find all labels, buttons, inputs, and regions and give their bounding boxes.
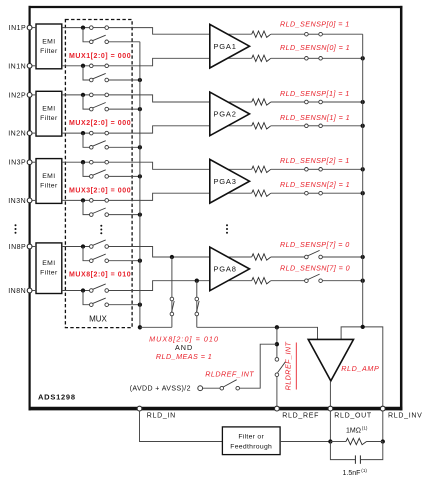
pin RLD_OUT [328,406,372,419]
svg-text:IN3P: IN3P [9,160,27,167]
wire RLD_SENSN[0] to feedback bus [322,57,362,59]
switch RLD_MEAS N [195,297,199,316]
wire EMI to mux node ch2N [62,132,90,134]
svg-text:1.5nF: 1.5nF [343,470,361,477]
resistor R ext 1M [330,438,382,444]
label RLD_SENSP[7] [280,240,350,249]
wire ch3N second row elbow [83,200,90,214]
wire RLD bus to RLD_MEAS switch [140,326,172,328]
wire ch8P second row to bus [109,260,140,262]
switch RLD_MEAS P [170,297,174,316]
op-amp PGA1 [210,24,250,68]
ellipsis dots mux column [100,225,102,234]
junction dot PGA8 N input [195,279,199,283]
wire RLD_SENSP[1] to feedback bus [322,101,362,103]
wire IN3N to EMI filter [32,199,36,201]
wire ch2N second row elbow [83,133,90,147]
junction dot feedback bus N1 [361,124,365,128]
mux switch ch8N to RLD bus [90,298,109,306]
mux switch ch2N main [90,131,109,135]
wire EMI to mux node ch1N [62,65,90,67]
wire ch8P second row elbow [83,247,90,261]
mux switch ch1P main [90,26,109,30]
svg-text:IN8P: IN8P [9,244,27,251]
wire IN1P to EMI filter [32,27,36,29]
filter or feedthrough box [222,427,280,455]
wire EMI to mux node ch2P [62,94,90,96]
wire ch1N second row to bus [109,79,140,81]
resistor RLD_SENSN[7] [252,278,271,284]
svg-text:Filter or: Filter or [238,434,264,441]
wire RLD_MEAS switch N vertical [196,281,198,328]
wire IN2N to EMI filter [32,132,36,134]
svg-text:(1): (1) [361,468,367,473]
wire amp inverting input [341,327,383,406]
wire resistor to switch ch8N [271,280,305,282]
wire resistor to switch ch2P [271,101,305,103]
svg-text:PGA8: PGA8 [214,265,237,274]
switch RLD_SENSP[7] [305,250,323,258]
EMI filter channel 2 [36,91,62,136]
pin IN2P [9,92,32,99]
pin RLD_INV [380,406,422,419]
junction dot ch3P [81,160,85,164]
wire resistor to switch ch3P [271,168,305,170]
junction dot ch1P [81,25,85,29]
wire EMI to mux node ch3P [62,161,90,163]
svg-text:EMI: EMI [42,38,55,45]
wire AVDD AVSS branch [240,344,277,388]
svg-text:RLD_SENSP[1] = 1: RLD_SENSP[1] = 1 [280,89,350,98]
switch RLD_SENSP[2] [305,168,323,172]
junction dot bus ch3N [138,212,142,216]
label MUX [89,315,107,324]
wire ch8N second row to bus [109,304,140,306]
wire ch1N second row elbow [83,66,90,80]
mux switch ch8N main [90,284,109,292]
wire resistor to switch ch8P [271,256,305,258]
junction dot RLD_REF branch [275,325,279,329]
svg-text:PGA2: PGA2 [214,110,237,119]
mux switch ch3N to RLD bus [90,208,109,216]
label 1.5nF [343,468,368,477]
svg-text:IN1P: IN1P [9,25,27,32]
label MUX8[2:0] [69,272,131,279]
junction dot feedback node [361,325,365,329]
wire RLD_MEAS switch P vertical [171,257,173,327]
MUX block dashed box [65,20,132,328]
junction dot ch2P [81,93,85,97]
junction dot bus ch2P [138,107,142,111]
label MUX2[2:0] [69,120,131,127]
junction dot feedback bus P7 [361,255,365,259]
wire ch1N to PGA1 [109,58,252,66]
wire resistor to switch ch1P [271,33,305,35]
junction dot RLD bus corner [138,325,142,329]
junction dot bus ch1N [138,78,142,82]
EMI filter channel 3 [36,159,62,204]
wire resistor to switch ch3N [271,192,305,194]
svg-text:RLD_SENSP[7] = 0: RLD_SENSP[7] = 0 [280,240,350,249]
wire ch1P to PGA1 [109,28,252,35]
wire RLD_SENSN[1] to feedback bus [322,125,362,127]
svg-text:EMI: EMI [42,173,55,180]
resistor RLD_SENSN[2] [252,190,271,196]
wire IN8P to EMI filter [32,246,36,248]
switch RLD_SENSN[2] [305,191,323,195]
terminal (AVDD+AVSS)/2 [198,386,203,391]
mux switch ch2P main [90,93,109,97]
label MUX8 condition [149,334,219,343]
svg-text:MUX: MUX [89,315,107,324]
label RLD_SENSP[1] [280,89,350,98]
svg-text:IN2P: IN2P [9,92,27,99]
svg-text:RLDREF_INT: RLDREF_INT [205,370,254,379]
resistor RLD_SENSN[0] [252,55,271,61]
pin RLD_REF [275,406,320,419]
resistor RLD_SENSP[0] [252,31,271,37]
mux switch ch1N main [90,64,109,68]
pin IN3N [8,198,32,205]
junction dot AVDD AVSS branch [275,342,279,346]
junction dot ch1N [81,64,85,68]
label RLD_SENSP[0] [280,20,350,29]
ellipsis dots left margin [15,224,17,233]
wire ch2P second row elbow [83,95,90,109]
resistor RLD_SENSP[7] [252,254,271,260]
wire ch3P second row elbow [83,162,90,176]
pin IN3P [9,160,32,167]
wire EMI to mux node ch8N [62,290,90,292]
wire resistor to switch ch2N [271,125,305,127]
label RLDREF_INT vertical [284,341,297,390]
wire resistor to switch ch1N [271,57,305,59]
svg-text:MUX3[2:0] = 000: MUX3[2:0] = 000 [69,187,131,194]
wire ch8N second row elbow [83,291,90,305]
svg-text:(AVDD + AVSS)/2: (AVDD + AVSS)/2 [130,386,191,393]
svg-text:PGA1: PGA1 [214,42,237,51]
mux switch ch8P main [90,240,109,248]
wire ch3P to PGA3 [109,162,252,169]
resistor RLD_SENSP[1] [252,99,271,105]
wire RLD line to amp input [197,327,318,339]
wire ch8P to PGA8 [109,247,252,258]
svg-text:MUX8[2:0] = 010: MUX8[2:0] = 010 [69,272,131,279]
label RLD_SENSN[0] [280,43,350,52]
junction dot bus ch2N [138,145,142,149]
label RLDREF_INT [205,370,254,379]
wire amp output [329,381,331,406]
wire ch8N to PGA8 [109,281,252,291]
wire ch3N to PGA3 [109,193,252,200]
switch RLDREF_INT vertical [275,358,285,377]
op-amp PGA3 [210,159,250,203]
svg-text:MUX2[2:0] = 000: MUX2[2:0] = 000 [69,120,131,127]
svg-text:IN1N: IN1N [8,63,26,70]
wire RLD_REF vertical upper [276,327,278,357]
label AND [175,343,193,352]
switch RLDREF_INT [220,380,240,390]
label RLD_SENSP[2] [280,156,350,165]
wire IN8N to EMI filter [32,290,36,292]
op-amp PGA8 [210,247,250,291]
resistor RLD_SENSN[1] [252,123,271,129]
pin IN8N [8,288,32,295]
junction dot bus ch8N [138,303,142,307]
resistor RLD_SENSP[2] [252,166,271,172]
pin IN8P [9,244,32,251]
junction dot ch3N [81,198,85,202]
wire EMI to mux node ch3N [62,199,90,201]
op-amp RLD_AMP [308,339,353,381]
EMI filter channel 1 [36,24,62,69]
svg-text:RLD_AMP: RLD_AMP [341,364,379,373]
svg-text:RLD_SENSN[0] = 1: RLD_SENSN[0] = 1 [280,43,350,52]
wire ch3P second row to bus [109,175,140,177]
svg-text:AND: AND [175,343,193,352]
switch RLD_SENSP[0] [305,32,323,36]
label RLD_SENSN[7] [280,263,350,272]
wire EMI to mux node ch8P [62,246,90,248]
wire IN3P to EMI filter [32,161,36,163]
wire ch2N to PGA2 [109,126,252,133]
wire ch2N second row to bus [109,146,140,148]
wire capacitor loop left [330,442,355,460]
junction dot bus ch3P [138,174,142,178]
svg-text:RLD_SENSN[1] = 1: RLD_SENSN[1] = 1 [280,113,350,122]
label RLD_AMP [341,364,379,373]
svg-text:RLD_SENSP[0] = 1: RLD_SENSP[0] = 1 [280,20,350,29]
label (AVDD+AVSS)/2 [130,386,191,393]
EMI filter channel 8 [36,243,62,294]
wire RLD_OUT down [329,411,331,441]
junction dot feedback bus P1 [361,100,365,104]
junction dot feedback bus N0 [361,56,365,60]
svg-text:RLD_INV: RLD_INV [388,413,422,420]
wire feedback bus vertical [362,34,364,327]
mux switch ch1P to RLD bus [90,35,109,43]
pin IN2N [8,131,32,138]
svg-text:MUX8[2:0] = 010: MUX8[2:0] = 010 [149,334,219,343]
junction dot ch8P [81,244,85,248]
capacitor C ext 1.5nF [355,455,360,463]
svg-text:Filter: Filter [40,182,58,189]
svg-text:RLD_OUT: RLD_OUT [334,413,372,420]
svg-text:PGA3: PGA3 [214,177,237,186]
label MUX3[2:0] [69,187,131,194]
svg-text:EMI: EMI [42,260,55,267]
junction dot bus ch8P [138,259,142,263]
switch RLD_SENSP[1] [305,100,323,104]
svg-text:RLD_SENSP[2] = 1: RLD_SENSP[2] = 1 [280,156,350,165]
wire RLD_IN to filter box [140,411,223,441]
svg-text:1MΩ: 1MΩ [346,428,361,435]
wire capacitor loop right [360,442,382,460]
chip outline ADS1298 [29,6,403,411]
svg-text:IN2N: IN2N [8,131,26,138]
wire RLD_SENSP[0] to feedback bus [322,33,362,35]
label RLD_SENSN[1] [280,113,350,122]
wire IN1N to EMI filter [32,65,36,67]
svg-text:RLD_SENSN[2] = 1: RLD_SENSN[2] = 1 [280,180,350,189]
svg-text:MUX1[2:0] = 000: MUX1[2:0] = 000 [69,53,131,60]
ellipsis dots pga column [226,224,228,233]
mux switch ch2N to RLD bus [90,141,109,149]
switch RLD_SENSN[7] [305,274,323,282]
wire ch1P second row elbow [83,28,90,42]
junction dot ch8N [81,288,85,292]
switch RLD_SENSN[0] [305,57,323,61]
mux switch ch3P main [90,160,109,164]
mux switch ch3N main [90,199,109,203]
label RLD_MEAS condition [156,352,212,361]
pin IN1N [8,63,32,70]
wire RLD_SENSP[7] to feedback bus [322,256,362,258]
junction dot feedback bus N7 [361,279,365,283]
wire RLD second-row bus [139,42,141,328]
svg-text:RLD_REF: RLD_REF [282,413,319,420]
label 1M ohm [346,426,368,435]
wire IN2P to EMI filter [32,94,36,96]
svg-text:IN8N: IN8N [8,288,26,295]
svg-text:Feedthrough: Feedthrough [230,443,272,450]
junction dot RLD_OUT node [328,439,332,443]
switch RLD_SENSN[1] [305,124,323,128]
junction dot feedback bus P2 [361,167,365,171]
wire ch1P second row to bus [109,41,140,43]
svg-text:RLD_IN: RLD_IN [147,413,176,420]
wire RLD_SENSP[2] to feedback bus [322,168,362,170]
svg-text:Filter: Filter [40,270,58,277]
wire ch2P second row to bus [109,108,140,110]
wire RLD_INV down [382,411,384,441]
wire RLD_SENSN[7] to feedback bus [322,280,362,282]
svg-text:RLD_MEAS = 1: RLD_MEAS = 1 [156,352,212,361]
svg-text:Filter: Filter [40,115,58,122]
svg-text:(1): (1) [362,426,368,431]
wire RLD_REF vertical lower [276,377,278,407]
svg-text:RLDREF_INT: RLDREF_INT [284,341,293,390]
svg-text:ADS1298: ADS1298 [38,393,76,402]
svg-text:RLD_SENSN[7] = 0: RLD_SENSN[7] = 0 [280,263,350,272]
label MUX1[2:0] [69,53,131,60]
svg-text:Filter: Filter [40,48,58,55]
label ADS1298 [38,393,76,402]
junction dot RLD_INV node [381,439,385,443]
mux switch ch1N to RLD bus [90,73,109,81]
wire AVDD AVSS terminal [203,387,220,389]
pin RLD_IN [137,406,176,419]
wire RLD_SENSN[2] to feedback bus [322,192,362,194]
junction dot ch2N [81,131,85,135]
op-amp PGA2 [210,92,250,136]
pin IN1P [9,25,32,32]
junction dot PGA8 P input [170,255,174,259]
wire EMI to mux node ch1P [62,27,90,29]
wire ch2P to PGA2 [109,95,252,102]
mux switch ch8P to RLD bus [90,254,109,262]
junction dot feedback bus N2 [361,191,365,195]
mux switch ch3P to RLD bus [90,170,109,178]
svg-text:EMI: EMI [42,106,55,113]
mux switch ch2P to RLD bus [90,103,109,111]
svg-text:IN3N: IN3N [8,198,26,205]
wire ch3N second row to bus [109,214,140,216]
wire filter box to RLD_OUT node [280,441,330,443]
label RLD_SENSN[2] [280,180,350,189]
